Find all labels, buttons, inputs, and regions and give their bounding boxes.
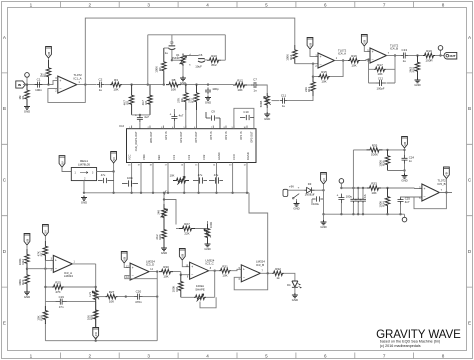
capacitor C14 — [98, 178, 114, 183]
wire bus to IC3_B output — [249, 193, 268, 273]
svg-text:100K: 100K — [378, 201, 382, 208]
svg-text:4K7: 4K7 — [123, 100, 127, 106]
ground below switch — [296, 199, 298, 202]
svg-text:LM324: LM324 — [64, 274, 73, 278]
capacitor C25 — [398, 197, 404, 200]
resistor R14 — [292, 45, 297, 64]
svg-text:IC4_B: IC4_B — [390, 47, 398, 51]
svg-text:REF: REF — [157, 154, 161, 160]
svg-text:10K: 10K — [170, 174, 175, 178]
svg-text:C6: C6 — [199, 53, 203, 57]
svg-text:–: – — [59, 87, 61, 91]
svg-text:4u7: 4u7 — [179, 114, 184, 118]
resistor R32h — [219, 268, 231, 273]
frame row ticks — [2, 73, 473, 287]
svg-text:22K: 22K — [304, 87, 308, 92]
wire R19 to OUT — [435, 55, 444, 57]
svg-text:–: – — [424, 195, 426, 199]
svg-text:R33: R33 — [371, 182, 377, 186]
tag 9V supply — [321, 173, 327, 185]
resistor R6 — [148, 85, 153, 115]
svg-text:100K: 100K — [155, 66, 159, 73]
svg-text:47u: 47u — [214, 173, 219, 177]
resistor R27 — [176, 228, 179, 230]
wire IC3_A feedback — [45, 261, 95, 302]
svg-text:GND: GND — [24, 110, 30, 114]
resistor R13 — [311, 77, 316, 97]
svg-text:10K: 10K — [163, 274, 168, 278]
svg-text:GND: GND — [205, 101, 211, 105]
svg-text:100u: 100u — [313, 202, 319, 206]
pad feedback return — [404, 214, 406, 217]
svg-text:GND: GND — [401, 179, 407, 183]
svg-text:GND: GND — [292, 298, 298, 302]
wire 5V to bus column — [113, 172, 115, 193]
svg-text:+9V: +9V — [289, 185, 294, 189]
trimmer T1 — [162, 204, 167, 222]
op-amp IC4_A — [318, 53, 335, 68]
svg-text:+: + — [424, 187, 426, 191]
LED D4 — [292, 281, 298, 287]
svg-text:24K: 24K — [157, 210, 161, 215]
svg-text:GND: GND — [204, 247, 210, 251]
svg-text:C2: C2 — [98, 77, 102, 81]
svg-text:IC1_A: IC1_A — [74, 76, 82, 80]
wire power bottom row — [324, 213, 405, 215]
wire into +in IC1_A — [49, 81, 58, 85]
svg-text:10K: 10K — [171, 87, 176, 91]
svg-text:E: E — [3, 320, 6, 325]
svg-text:10K: 10K — [113, 87, 118, 91]
resistor R11 — [194, 85, 199, 110]
ground below T2 — [205, 242, 211, 247]
svg-text:+: + — [59, 79, 61, 83]
svg-text:C5: C5 — [170, 41, 174, 45]
svg-text:GND: GND — [414, 83, 420, 87]
svg-text:+: + — [55, 258, 57, 262]
svg-text:4: 4 — [206, 2, 209, 7]
tag 9V regulator input — [59, 156, 65, 168]
svg-text:1: 1 — [30, 2, 33, 7]
wire C20 to long vertical — [143, 296, 158, 298]
svg-text:R31: R31 — [222, 264, 228, 268]
svg-text:UPD-OUT: UPD-OUT — [149, 131, 153, 143]
svg-text:VB: VB — [25, 239, 29, 243]
svg-text:R25: R25 — [55, 281, 61, 285]
svg-text:OP2 IN: OP2 IN — [224, 131, 228, 140]
tag 5V regulator output — [111, 152, 117, 164]
switch SW1 — [294, 194, 300, 198]
pad output test point — [440, 50, 442, 55]
svg-text:100K: 100K — [378, 160, 382, 167]
capacitor bank C21 — [350, 197, 356, 199]
wire R32 to LED — [284, 273, 295, 281]
ground at REG1 — [81, 196, 87, 201]
svg-text:C20: C20 — [136, 289, 142, 293]
ground below Q1 — [182, 66, 184, 76]
wire clock node row — [172, 59, 178, 61]
svg-text:LV1: LV1 — [88, 291, 92, 296]
svg-text:2: 2 — [89, 2, 92, 7]
tag VB IC5_B — [444, 167, 450, 179]
ground below R18 — [415, 78, 421, 83]
svg-text:6: 6 — [324, 2, 327, 7]
svg-text:–: – — [243, 275, 245, 279]
svg-text:+: + — [169, 113, 171, 117]
ground below C8 — [205, 96, 211, 101]
svg-text:1u: 1u — [99, 88, 103, 92]
svg-text:100K: 100K — [286, 54, 290, 61]
svg-text:8K2: 8K2 — [211, 63, 217, 67]
svg-text:B: B — [468, 106, 471, 111]
wire IC3_C out — [209, 270, 219, 272]
regulator REG1 LM78L05 — [71, 168, 96, 181]
svg-text:R10: R10 — [211, 54, 217, 58]
wire IC3_D feedback — [125, 272, 157, 279]
trimmer DEPTH — [265, 93, 270, 108]
wire 9V tag to REG1 — [62, 167, 71, 171]
capacitor C27 electrolytic — [338, 194, 344, 198]
resistor R28 — [43, 306, 48, 324]
resistor R3 — [110, 82, 122, 87]
svg-text:–: – — [372, 58, 374, 62]
svg-text:CC2: CC2 — [187, 154, 191, 160]
capacitor C5 — [171, 35, 173, 45]
svg-text:IC3_D: IC3_D — [146, 263, 154, 267]
tag VB input bias — [46, 47, 52, 59]
svg-text:R32: R32 — [275, 267, 281, 271]
wire R22 node to -in IC3_A — [27, 268, 53, 270]
capacitor C2 — [97, 82, 100, 88]
svg-text:10K: 10K — [237, 88, 242, 92]
tag LFO out — [93, 328, 99, 340]
resistor R12 — [233, 83, 247, 88]
resistor R18 — [415, 56, 420, 79]
svg-text:100u: 100u — [346, 195, 353, 199]
svg-text:4u7: 4u7 — [144, 115, 149, 119]
svg-text:VB: VB — [308, 43, 312, 47]
tag VB IC3_D — [121, 252, 127, 264]
svg-text:2M2: 2M2 — [408, 67, 412, 73]
wire wet row — [341, 187, 367, 189]
svg-text:+: + — [135, 114, 137, 118]
IC2 top pin stubs — [132, 126, 247, 129]
svg-text:D3: D3 — [308, 182, 312, 186]
svg-text:OP5 IN: OP5 IN — [209, 131, 213, 140]
pot SHAPE — [193, 296, 207, 298]
svg-text:DGND: DGND — [246, 152, 250, 160]
wire junction row above IC2 — [132, 114, 150, 116]
svg-text:10K: 10K — [371, 191, 376, 195]
svg-text:5V: 5V — [44, 230, 48, 234]
diode D3 — [305, 187, 315, 193]
svg-text:–: – — [320, 63, 322, 67]
svg-text:IC5_B: IC5_B — [438, 182, 446, 186]
svg-text:IC3_C: IC3_C — [206, 262, 214, 266]
capacitor bank C23 — [360, 197, 366, 199]
wire R27 to trimmer T2 — [195, 221, 208, 229]
battery 9V jack — [283, 189, 288, 196]
op-amp IC3_A — [53, 255, 72, 272]
svg-text:CO2: CO2 — [202, 154, 206, 160]
svg-text:1u: 1u — [403, 59, 407, 63]
trimmer below IC2 — [173, 178, 189, 183]
svg-text:100R: 100R — [425, 58, 433, 62]
svg-text:–: – — [55, 266, 57, 270]
wire REG1 gnd to bus — [83, 181, 85, 193]
wire tag to +in IC3_C — [182, 260, 189, 267]
pad wet signal — [339, 179, 344, 184]
svg-text:LM78L05: LM78L05 — [78, 163, 90, 167]
svg-text:OP5 OUT: OP5 OUT — [194, 131, 198, 143]
svg-text:R19: R19 — [426, 49, 432, 53]
capacitor C10 — [240, 115, 254, 120]
svg-text:470n: 470n — [135, 300, 142, 304]
capacitor C18 — [209, 177, 223, 183]
capacitor C1 — [35, 82, 38, 88]
svg-text:+: + — [336, 194, 338, 198]
svg-text:B: B — [3, 106, 6, 111]
op-amp IC5_B — [422, 184, 440, 201]
resistor R36 — [385, 150, 390, 171]
svg-text:8: 8 — [442, 2, 445, 7]
wire IC4_A out — [335, 60, 349, 62]
wire tag to +in IC4_B — [364, 46, 370, 51]
svg-text:100K: 100K — [172, 286, 176, 293]
svg-text:50KB: 50KB — [259, 101, 263, 108]
ground below R1 — [24, 105, 30, 110]
svg-text:OP1 IN: OP1 IN — [239, 131, 243, 140]
svg-text:GND: GND — [320, 225, 326, 229]
svg-text:R30: R30 — [163, 265, 169, 269]
svg-text:1M: 1M — [39, 73, 43, 78]
wire C5 top jog to R7 — [164, 47, 169, 49]
svg-text:GND: GND — [293, 207, 299, 211]
svg-text:UP2 IN: UP2 IN — [164, 131, 168, 139]
svg-text:2: 2 — [89, 353, 92, 358]
svg-text:47u: 47u — [198, 173, 203, 177]
svg-text:1n: 1n — [253, 89, 257, 93]
resistor R9 — [184, 85, 189, 110]
resistor R22 — [25, 249, 30, 269]
capacitor C24 — [402, 155, 408, 158]
svg-text:C9: C9 — [211, 110, 215, 114]
ground below LED — [294, 287, 296, 293]
ground power rail — [323, 214, 325, 220]
resistor R35 — [367, 148, 383, 153]
capacitor C15 — [122, 180, 138, 186]
wire LFO bottom loop — [45, 297, 157, 341]
resistor R32 — [272, 271, 284, 276]
svg-text:VB: VB — [403, 142, 407, 146]
svg-text:22K: 22K — [184, 231, 189, 235]
svg-text:100K: 100K — [209, 222, 213, 228]
tag 5V LFO — [43, 225, 49, 237]
capacitor C6 — [198, 59, 205, 63]
svg-text:GND: GND — [264, 117, 270, 121]
capacitor C8 — [205, 88, 211, 91]
svg-text:AGND: AGND — [217, 152, 221, 160]
bus jog — [164, 190, 167, 195]
wire C13 to R19 — [409, 55, 424, 57]
wire IC1_A output — [77, 84, 96, 86]
svg-text:R12: R12 — [237, 79, 243, 83]
wire battery to diode — [288, 189, 305, 191]
resistor R31v — [179, 275, 184, 298]
resistor R25 — [52, 285, 64, 290]
resistor R16 — [348, 58, 360, 63]
wire dry signal bus to IC4_A — [85, 18, 294, 85]
capacitor C4 electrolytic — [171, 114, 177, 117]
svg-text:1M: 1M — [18, 95, 22, 100]
resistor R34 — [385, 188, 390, 214]
resistor R5 — [129, 85, 134, 115]
pad input test point — [26, 77, 28, 84]
tag VB LFO — [24, 234, 30, 246]
op-amp IC3_D — [130, 263, 149, 280]
resistor R19 — [423, 53, 435, 58]
resistor R26 — [162, 222, 167, 246]
svg-text:(c) 2016 madbeanpedals: (c) 2016 madbeanpedals — [380, 344, 421, 348]
capacitor bank C22 — [355, 197, 361, 199]
svg-text:1n: 1n — [409, 159, 413, 163]
capacitor C13 — [400, 53, 403, 59]
svg-text:47K: 47K — [55, 290, 60, 294]
capacitor C12 — [375, 80, 380, 86]
wire pot wiper to R27b — [96, 296, 106, 298]
pot RATE — [93, 288, 98, 302]
resistor R30 — [159, 269, 173, 274]
tag VB for IC4_B — [361, 35, 367, 47]
wire R35 row — [353, 149, 404, 151]
svg-text:9V: 9V — [322, 178, 326, 182]
svg-text:47u: 47u — [364, 193, 367, 198]
svg-text:47u: 47u — [101, 173, 106, 177]
wire IC3_B feedback — [234, 273, 272, 290]
svg-text:C13: C13 — [402, 48, 408, 52]
wire tag to +in IC3_D — [124, 263, 130, 268]
svg-text:9V: 9V — [60, 161, 64, 165]
wire ground bus — [84, 192, 249, 194]
wire wiper to C11 — [272, 100, 280, 102]
svg-text:VB: VB — [445, 172, 449, 176]
op-amp IC1_A — [58, 76, 77, 93]
wire IC4_B feedback net — [369, 56, 396, 84]
wire feedback R15 — [313, 61, 343, 77]
wire IC3_C feedback row — [181, 271, 215, 298]
svg-text:R27: R27 — [109, 290, 115, 294]
svg-text:GND: GND — [81, 201, 87, 205]
resistor R23 — [25, 269, 30, 290]
svg-text:10uF: 10uF — [195, 65, 202, 69]
OUT tag — [444, 52, 457, 59]
svg-text:+: + — [313, 192, 315, 196]
wire REG1 output — [97, 151, 114, 172]
wire IN to node — [23, 84, 49, 86]
capacitor C19 — [56, 299, 61, 305]
svg-text:4: 4 — [206, 353, 209, 358]
svg-text:VB: VB — [47, 52, 51, 56]
wire D3 to 9V tag — [315, 189, 324, 191]
capacitor C11 — [280, 98, 283, 104]
svg-text:IC2: IC2 — [119, 124, 124, 128]
svg-text:C7: C7 — [253, 78, 257, 82]
ground below R26 — [161, 246, 167, 251]
wire R36 C24 bottom — [388, 170, 405, 172]
svg-text:1u: 1u — [282, 104, 286, 108]
resistor R33 — [367, 186, 381, 191]
svg-text:10K: 10K — [222, 274, 227, 278]
capacitor C9 — [206, 112, 220, 129]
tag VB filter — [402, 137, 408, 149]
svg-text:+: + — [298, 186, 300, 190]
svg-text:5: 5 — [265, 2, 268, 7]
ground below R23 — [24, 290, 30, 295]
svg-text:100K: 100K — [18, 258, 22, 265]
wire to C20 — [118, 296, 135, 298]
svg-text:R16: R16 — [351, 54, 357, 58]
wire R35 branch vertical — [352, 150, 354, 188]
wire minus-in row IC5_B — [401, 196, 422, 198]
svg-text:VB: VB — [123, 257, 127, 261]
svg-text:VB: VB — [181, 254, 185, 258]
svg-text:27K: 27K — [187, 98, 191, 103]
svg-text:3: 3 — [147, 2, 150, 7]
svg-text:GND: GND — [24, 295, 30, 299]
wire R33 to IC5_B — [381, 187, 422, 190]
svg-text:LFO: LFO — [94, 331, 98, 338]
svg-text:47n: 47n — [59, 305, 64, 309]
svg-text:UP2-OUT: UP2-OUT — [179, 131, 183, 143]
svg-text:GND: GND — [161, 251, 167, 255]
svg-text:based on the EQD Sea Machine (: based on the EQD Sea Machine (tm) — [380, 339, 440, 343]
svg-text:R15: R15 — [321, 70, 327, 74]
svg-text:R3: R3 — [114, 78, 118, 82]
op-amp IC4_B — [370, 48, 387, 63]
resistor R15 — [318, 74, 330, 79]
svg-text:100n: 100n — [127, 176, 133, 180]
svg-text:+: + — [243, 268, 245, 272]
tag VB IC3_C — [179, 249, 185, 261]
svg-text:47K: 47K — [36, 251, 40, 256]
wire R30 to IC3_C — [173, 272, 190, 275]
wire long vertical to LFO bottom — [156, 279, 158, 297]
resistor R30 rate — [106, 294, 118, 299]
svg-text:CLK_OUP1-OUT: CLK_OUP1-OUT — [134, 131, 138, 151]
svg-text:+: + — [372, 50, 374, 54]
svg-text:27K: 27K — [177, 98, 181, 103]
svg-text:VCC: VCC — [128, 154, 132, 160]
svg-text:4K7: 4K7 — [141, 100, 145, 106]
wire R21 to +in IC3_A — [45, 260, 53, 262]
resistor R17 — [374, 67, 386, 72]
svg-text:C12: C12 — [378, 77, 384, 81]
wire R3 to node — [122, 84, 163, 86]
svg-text:CCO: CCO — [232, 154, 236, 160]
svg-text:IC3_B: IC3_B — [256, 263, 264, 267]
svg-text:8: 8 — [442, 353, 445, 358]
resistor R1 — [25, 85, 30, 105]
svg-text:5V: 5V — [112, 157, 116, 161]
svg-text:4n7: 4n7 — [405, 200, 410, 204]
wire IC5_B out and feedback — [414, 179, 452, 209]
wire R10 to loop — [221, 35, 225, 60]
wire C2 to R3 — [105, 84, 111, 86]
top feedback loop wire — [148, 35, 226, 85]
trimmer T2 — [205, 224, 210, 242]
svg-text:1u: 1u — [165, 51, 169, 55]
svg-text:R8: R8 — [172, 78, 176, 82]
